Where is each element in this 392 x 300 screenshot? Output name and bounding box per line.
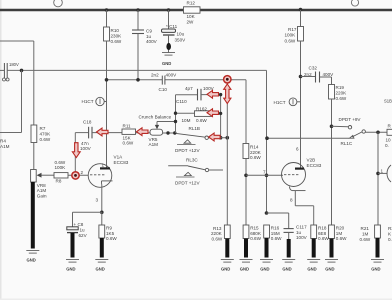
svg-text:GND: GND (371, 267, 380, 272)
svg-text:Crunch Balance: Crunch Balance (139, 114, 172, 119)
resistor R21 (360, 225, 392, 242)
svg-text:0.6W: 0.6W (106, 236, 117, 241)
capacitor C8 (cathode bypass) (67, 212, 102, 238)
svg-text:220K: 220K (250, 150, 262, 155)
svg-text:C18: C18 (83, 119, 92, 124)
annotation ring and double arrow at line B (224, 76, 231, 104)
resistor R19 (329, 77, 348, 101)
svg-text:100V: 100V (80, 146, 92, 151)
wire x21.5 return to left edge (0, 70, 22, 132)
resistor R18 (311, 225, 330, 241)
svg-text:R21: R21 (361, 226, 370, 231)
wire R10 to V1A anode (106, 41, 108, 168)
svg-text:230K: 230K (111, 33, 123, 38)
node dot right edge (376, 131, 380, 135)
svg-text:DPDT +12V: DPDT +12V (175, 148, 200, 153)
svg-text:0.6W: 0.6W (336, 236, 347, 241)
svg-text:DPDT +9V: DPDT +9V (339, 117, 362, 122)
svg-text:GND: GND (325, 267, 334, 272)
svg-text:0.: 0. (388, 237, 392, 242)
node dot on rail (C9) (136, 8, 140, 12)
node dot right bus top (219, 93, 222, 96)
node dot V2A tap (376, 172, 380, 176)
capacitor C10 (151, 72, 177, 92)
heavy ground lead VR8 (31, 182, 35, 249)
resistor R8 (54, 160, 89, 184)
node dot C32 tap (299, 75, 303, 79)
svg-text:+ C8: + C8 (74, 222, 84, 227)
node dot line A col at grid row (265, 174, 269, 178)
svg-text:180V: 180V (9, 62, 19, 67)
svg-text:A1M: A1M (149, 142, 159, 147)
svg-text:15M: 15M (271, 231, 280, 236)
node dot bus wiper row (174, 120, 177, 123)
svg-text:2n2: 2n2 (304, 72, 312, 77)
svg-text:R15: R15 (250, 225, 259, 230)
svg-text:2: 2 (81, 170, 84, 175)
svg-text:0.6W: 0.6W (212, 237, 223, 242)
svg-text:R14: R14 (250, 144, 259, 149)
svg-text:ECC83: ECC83 (114, 160, 129, 165)
capacitor C11 (electrolytic) (162, 10, 187, 53)
annotation arrow at R11 (137, 128, 149, 136)
svg-text:2W: 2W (187, 19, 195, 24)
svg-text:3: 3 (96, 198, 99, 203)
svg-text:400V: 400V (166, 72, 178, 77)
svg-text:100K: 100K (285, 33, 297, 38)
wire V2B grid row (246, 174, 283, 176)
svg-text:V2B: V2B (307, 157, 316, 162)
B+ rail (0, 9, 392, 11)
svg-text:H1CT: H1CT (82, 99, 94, 104)
node dot bus R162 row (174, 112, 177, 115)
svg-text:RL1C: RL1C (341, 141, 353, 146)
svg-text:R16: R16 (271, 225, 280, 230)
capacitor C18 (80, 119, 122, 151)
svg-text:R2: R2 (388, 226, 392, 231)
terminal T1 on rail (54, 0, 63, 7)
wire RL1C feed from node A (267, 137, 350, 139)
svg-text:0.6W: 0.6W (123, 141, 134, 146)
svg-text:400V: 400V (323, 72, 335, 77)
relay RL1B (175, 126, 228, 153)
node dot line B anode column (105, 78, 109, 82)
svg-text:4p7: 4p7 (185, 86, 193, 91)
resistor R20 (329, 225, 348, 241)
annotation arrow at RL1B (209, 133, 221, 141)
node dot V2B grid row (244, 174, 248, 178)
svg-text:0.6W: 0.6W (318, 236, 329, 241)
node dot on rail (C11) (167, 8, 171, 12)
wire down to V2A grid tap (377, 132, 379, 225)
capacitor C32 (301, 65, 335, 82)
svg-text:R8: R8 (56, 179, 62, 184)
svg-text:R9: R9 (106, 225, 112, 230)
wire pot to relay pole (163, 132, 177, 134)
svg-text:10u: 10u (177, 32, 185, 37)
svg-text:7: 7 (263, 170, 266, 175)
svg-text:ECC83: ECC83 (307, 163, 322, 168)
wire R17 to V2B anode (300, 41, 302, 168)
wire x227 column (226, 80, 228, 225)
svg-text:1u: 1u (146, 34, 152, 39)
svg-text:C117: C117 (296, 224, 307, 229)
svg-text:C110: C110 (176, 99, 187, 104)
svg-text:0.6W: 0.6W (250, 236, 261, 241)
svg-text:R19: R19 (336, 85, 345, 90)
svg-text:0.: 0. (385, 143, 389, 148)
node dot right bus bottom (219, 136, 223, 140)
svg-text:C10: C10 (159, 87, 168, 92)
ground (C8) (66, 260, 79, 272)
resistor R22 (cut at right edge) (384, 99, 392, 148)
svg-text:GND: GND (221, 267, 230, 272)
capacitor C9 (132, 10, 158, 80)
svg-text:C32: C32 (309, 65, 318, 70)
svg-text:GND: GND (162, 61, 171, 66)
triode V2B (282, 146, 322, 205)
node dot line A x21.5 (20, 69, 24, 73)
resistor R16 (264, 225, 282, 241)
svg-text:0.6W: 0.6W (336, 96, 347, 101)
resistor R4 (off crop, label only) (0, 139, 10, 149)
svg-text:62V: 62V (79, 233, 88, 238)
svg-text:470K: 470K (40, 131, 52, 136)
resistor R13 (211, 225, 230, 242)
svg-text:47n: 47n (81, 141, 89, 146)
svg-text:S1B: S1B (384, 99, 392, 104)
node dot right bus mid (219, 112, 222, 115)
resistor R14 (243, 144, 262, 161)
svg-text:DPDT +12V: DPDT +12V (175, 181, 200, 186)
svg-text:V1A: V1A (114, 155, 124, 160)
svg-text:1: 1 (381, 169, 384, 174)
terminal T2 on rail (351, 0, 358, 6)
svg-text:0.6W: 0.6W (40, 137, 51, 142)
svg-text:R18: R18 (318, 225, 327, 230)
ground (R16) (260, 260, 273, 272)
svg-text:100K: 100K (55, 165, 67, 170)
potentiometer VR5 Crunch Balance (139, 114, 176, 147)
svg-text:0.6W: 0.6W (271, 236, 282, 241)
wire V2B cathode to R18 (295, 206, 313, 225)
svg-text:220K: 220K (336, 91, 348, 96)
resistor R12 (184, 1, 201, 25)
capacitor C117 (267, 213, 308, 240)
svg-text:GND: GND (282, 267, 291, 272)
resistor R162 (182, 106, 221, 122)
svg-text:0.6W: 0.6W (111, 39, 122, 44)
annotation arrow at R162 (207, 109, 219, 117)
svg-text:GND: GND (96, 267, 105, 272)
svg-text:0.6W: 0.6W (360, 237, 371, 242)
input terminal 180V (cut at left edge) (0, 62, 19, 81)
svg-text:R12: R12 (187, 1, 196, 6)
annotation arrow at C18 (97, 128, 109, 136)
node dot RL1C feed (330, 125, 334, 129)
svg-text:GND: GND (66, 267, 75, 272)
svg-text:10K: 10K (187, 14, 196, 19)
resistor R11 (122, 123, 150, 145)
wire R14 to R15 (245, 159, 247, 226)
capacitor C110 (176, 86, 221, 104)
svg-text:680K: 680K (250, 231, 262, 236)
svg-text:R11: R11 (123, 123, 132, 128)
svg-text:6E8: 6E8 (318, 231, 327, 236)
border frame shading (0, 0, 2, 300)
svg-text:Gain: Gain (37, 193, 47, 198)
svg-text:10: 10 (386, 137, 392, 142)
wire line A (180V node to lead feed) (7, 70, 266, 213)
svg-text:R17: R17 (288, 27, 297, 32)
ground (R18) (307, 260, 320, 272)
ground (C11) (162, 53, 175, 67)
svg-text:10M: 10M (182, 118, 191, 123)
node dot V1A cathode (100, 211, 104, 215)
svg-text:R20: R20 (336, 225, 345, 230)
svg-text:220K: 220K (211, 231, 223, 236)
node dot main row (166, 131, 169, 134)
resistor R10 (104, 10, 123, 44)
svg-text:* C11: * C11 (166, 24, 178, 29)
node dot x227 at RL1B row (226, 136, 230, 140)
svg-text:1M: 1M (336, 231, 343, 236)
node dot on rail (R17) (299, 8, 303, 12)
svg-text:1u: 1u (80, 227, 86, 232)
svg-text:H1CT: H1CT (274, 100, 286, 105)
node dot bus bottom (173, 131, 176, 134)
svg-text:2n2: 2n2 (151, 72, 159, 77)
triode V2A (cut at edge) (378, 165, 391, 182)
resistor R17 (285, 10, 304, 43)
svg-text:GND: GND (240, 267, 249, 272)
svg-text:0.6W: 0.6W (250, 155, 261, 160)
resistor R7 (31, 125, 51, 170)
svg-text:GND: GND (27, 258, 36, 263)
potentiometer VR8 Gain (31, 170, 54, 199)
svg-text:R7: R7 (40, 126, 46, 131)
ground (C117) (282, 260, 295, 272)
svg-text:1M: 1M (362, 231, 369, 236)
ground (R15) (240, 260, 253, 272)
wire R19 down to R20 (331, 99, 333, 225)
svg-text:8: 8 (290, 198, 293, 203)
node dot on rail (R10) (105, 8, 109, 12)
svg-text:100V: 100V (296, 235, 308, 240)
node dot line A col at RL1C feed (265, 136, 269, 140)
annotation arrow down to grid node (72, 143, 80, 179)
svg-text:VR5: VR5 (149, 137, 158, 142)
svg-text:C9: C9 (146, 28, 152, 33)
resistor R9 (99, 212, 117, 241)
wire line B (anode node) (107, 80, 247, 144)
svg-text:GND: GND (260, 267, 269, 272)
wire top-left feed to R7 (0, 41, 34, 125)
heater terminal H1CT (right) (274, 98, 301, 106)
svg-text:0.6W: 0.6W (285, 38, 296, 43)
svg-text:RL3C: RL3C (186, 157, 198, 162)
svg-text:1K5: 1K5 (106, 231, 115, 236)
svg-text:400V: 400V (146, 39, 158, 44)
svg-text:0.6W: 0.6W (196, 118, 207, 123)
annotation arrow at C110 (207, 90, 219, 98)
ground (R20) (325, 260, 338, 272)
svg-text:GND: GND (307, 267, 316, 272)
ground (R21) (371, 260, 384, 272)
resistor R15 (243, 225, 262, 241)
svg-text:350V: 350V (175, 37, 187, 42)
svg-text:1: 1 (102, 162, 105, 167)
wire crunch bus (C10 out to rows) (176, 95, 198, 133)
relay RL3C (168, 157, 223, 185)
node dot line B C9 (136, 78, 140, 82)
ground (R9) (95, 260, 108, 272)
svg-text:6: 6 (296, 146, 299, 151)
svg-text:R13: R13 (213, 226, 222, 231)
svg-text:R10: R10 (111, 28, 120, 33)
triode V1A (81, 155, 129, 213)
ground (R13) (221, 260, 234, 272)
wire right bus (220, 95, 222, 138)
svg-text:A1M: A1M (0, 144, 10, 149)
svg-text:R4: R4 (0, 139, 6, 144)
heater terminal H1CT (left) (82, 97, 107, 105)
node dot line A col at C117 row (265, 211, 269, 215)
wire C18 branch from grid node (75, 133, 88, 176)
svg-text:1u: 1u (296, 230, 302, 235)
relay RL1C (332, 117, 388, 146)
svg-text:RL1B: RL1B (189, 126, 201, 131)
ground (VR8) (26, 251, 39, 263)
